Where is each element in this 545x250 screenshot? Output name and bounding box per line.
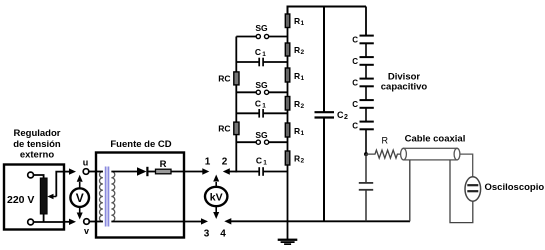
svg-text:Fuente de CD: Fuente de CD xyxy=(110,139,171,150)
svg-text:u: u xyxy=(83,158,89,168)
wire secondary bottom to node 3 arrow xyxy=(111,221,201,223)
lower arm capacitor xyxy=(365,154,367,183)
svg-text:RC: RC xyxy=(218,124,230,134)
node u terminal xyxy=(83,169,89,175)
svg-text:2: 2 xyxy=(344,114,348,121)
wire wiper to output u xyxy=(56,172,63,197)
svg-text:1: 1 xyxy=(301,20,305,27)
svg-text:1: 1 xyxy=(263,160,267,167)
svg-text:1: 1 xyxy=(262,51,266,58)
svg-text:C: C xyxy=(255,99,261,109)
svg-text:2: 2 xyxy=(222,157,228,168)
output arrow top (to u) xyxy=(64,171,70,173)
svg-text:4: 4 xyxy=(220,229,226,240)
label Regulador de tension externo xyxy=(13,128,61,161)
ground symbol xyxy=(278,239,298,241)
resistor RC 2 xyxy=(234,122,239,135)
svg-text:de tensión: de tensión xyxy=(13,139,61,150)
node junction divider tap xyxy=(364,152,368,156)
oscilloscope symbol xyxy=(465,177,481,201)
oscilloscope return wire xyxy=(450,160,473,223)
wire v to box xyxy=(89,221,96,223)
svg-text:Regulador: Regulador xyxy=(14,128,61,139)
divider column top xyxy=(365,7,367,36)
svg-text:2: 2 xyxy=(301,103,305,110)
wire u to box xyxy=(89,171,96,173)
svg-text:3: 3 xyxy=(204,229,210,240)
svg-text:1: 1 xyxy=(205,157,211,168)
node 2 wire from ladder xyxy=(223,168,230,174)
kV arrow down xyxy=(215,206,217,212)
left rail xyxy=(235,135,237,173)
svg-text:R: R xyxy=(294,126,300,136)
svg-text:C: C xyxy=(352,79,358,88)
terminal top-left xyxy=(28,172,34,178)
svg-text:C: C xyxy=(337,110,344,120)
wire R to node 1 arrow xyxy=(171,171,203,173)
wire variac bottom to bus xyxy=(43,214,45,222)
resistor R1 stage1 xyxy=(285,14,290,28)
variac wiper arrow xyxy=(51,196,56,198)
svg-text:C: C xyxy=(352,36,358,45)
svg-text:V: V xyxy=(76,191,84,205)
kV arrow up xyxy=(215,182,217,187)
resistor R1 stage3 xyxy=(285,123,290,137)
transformer primary winding xyxy=(99,172,102,222)
variac T1 body xyxy=(40,178,47,214)
capacitor C2 xyxy=(315,111,335,113)
svg-text:capacitivo: capacitivo xyxy=(381,82,428,93)
resistor R2 stage3 xyxy=(285,151,290,165)
kV meter xyxy=(205,187,227,206)
svg-text:SG: SG xyxy=(255,130,268,140)
svg-text:2: 2 xyxy=(301,158,305,165)
regulator box xyxy=(4,165,64,230)
terminal bottom-left xyxy=(28,219,34,225)
resistor RC 1 xyxy=(234,72,239,85)
svg-text:externo: externo xyxy=(20,150,55,161)
svg-text:R: R xyxy=(160,159,167,170)
svg-text:R: R xyxy=(294,45,300,55)
right column top wire xyxy=(288,7,367,15)
svg-text:1: 1 xyxy=(301,130,305,137)
svg-text:C: C xyxy=(352,122,358,131)
wire terminal to variac top xyxy=(34,175,44,178)
DC source box xyxy=(96,153,184,238)
left rail xyxy=(235,85,237,122)
svg-text:2: 2 xyxy=(301,49,305,56)
coaxial cable body xyxy=(404,148,458,160)
resistor R2 stage2 xyxy=(285,97,290,111)
svg-text:R: R xyxy=(382,136,389,146)
ground lead xyxy=(287,221,289,239)
svg-text:R: R xyxy=(294,99,300,109)
transformer secondary winding xyxy=(111,172,114,222)
svg-text:RC: RC xyxy=(218,74,230,84)
svg-text:v: v xyxy=(84,226,89,236)
transformer core xyxy=(105,167,110,227)
wire secondary top to diode xyxy=(111,171,137,173)
node v terminal xyxy=(84,219,90,225)
svg-text:1: 1 xyxy=(301,75,305,82)
wire box to primary top xyxy=(96,171,103,173)
svg-text:C: C xyxy=(352,100,358,109)
svg-text:R: R xyxy=(294,154,300,164)
svg-text:1: 1 xyxy=(262,103,266,110)
svg-text:Osciloscopio: Osciloscopio xyxy=(485,182,545,193)
label Divisor capacitivo xyxy=(381,72,428,93)
svg-text:C: C xyxy=(256,156,262,166)
svg-text:R: R xyxy=(294,71,300,81)
wire diode to R xyxy=(149,171,156,173)
voltmeter V xyxy=(70,188,89,207)
svg-text:C: C xyxy=(255,47,261,57)
wire bottom terminal to output v xyxy=(34,221,64,223)
left rail xyxy=(235,37,237,72)
wire cable to oscilloscope xyxy=(460,154,473,177)
svg-text:kV: kV xyxy=(210,192,223,204)
resistor R1 stage2 xyxy=(285,68,290,82)
voltmeter arrow up xyxy=(79,182,81,188)
diode D1 xyxy=(137,167,147,175)
wire cable shield left to ground bus xyxy=(409,160,411,221)
resistor R2 stage1 xyxy=(285,43,290,56)
C2 branch wire xyxy=(323,7,325,112)
svg-text:R: R xyxy=(294,16,300,26)
svg-text:220 V: 220 V xyxy=(7,194,34,206)
svg-text:C: C xyxy=(352,57,358,66)
svg-text:SG: SG xyxy=(255,80,268,90)
svg-text:SG: SG xyxy=(255,23,268,33)
voltmeter arrow down xyxy=(79,207,81,213)
output arrow bottom (to v) xyxy=(64,221,70,223)
wire box to primary bottom xyxy=(96,221,103,223)
svg-text:Cable coaxial: Cable coaxial xyxy=(405,134,466,145)
node 4 wire from ground bus xyxy=(224,218,231,224)
